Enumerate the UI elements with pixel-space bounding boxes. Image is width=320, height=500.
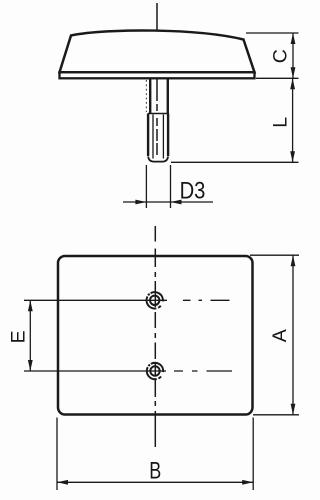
arrow B left [57, 480, 68, 485]
hole H1 centerline horizontal [24, 299, 167, 301]
hole H1 thread arc [147, 292, 163, 308]
svg-text:A: A [269, 329, 291, 342]
hole H2 centerline horizontal [24, 370, 166, 372]
dimension line D3 [123, 201, 213, 203]
arrow E bottom [28, 360, 33, 371]
A top extension line [250, 254, 299, 256]
C bottom extension line [256, 77, 299, 79]
arrow L top [290, 78, 295, 89]
arrow C bottom [291, 67, 296, 78]
cap flange band [60, 72, 255, 78]
arrow E top [28, 300, 33, 311]
thread minor diameter [153, 115, 163, 159]
arrow L bottom [290, 151, 295, 162]
dimension line E [29, 300, 31, 371]
plate outline [58, 256, 253, 415]
dimension line C [292, 33, 294, 78]
dimension line B [57, 481, 253, 483]
B left extension line [56, 418, 58, 491]
dimension line L [292, 78, 294, 162]
arrow D3 left [135, 200, 146, 205]
centerline top view [156, 3, 158, 163]
thread runout line [148, 113, 168, 115]
dimension line A [292, 255, 294, 415]
arrow B right [242, 480, 253, 485]
hole H2 inner circle [150, 366, 159, 375]
arrow D3 right [171, 200, 182, 205]
L bottom extension line [171, 161, 299, 163]
D3 left extension line [145, 165, 147, 208]
centerline bottom view [154, 226, 156, 447]
svg-text:L: L [270, 117, 292, 128]
svg-text:B: B [149, 458, 161, 484]
hole H1 inner circle [150, 296, 159, 305]
svg-text:C: C [269, 49, 291, 63]
thread major diameter [148, 114, 168, 157]
cap body [60, 30, 255, 72]
arrow A bottom [291, 404, 296, 415]
arrow C top [291, 33, 296, 44]
hidden major-diameter line [145, 80, 147, 112]
hole H2 thread arc [147, 363, 163, 379]
stud rounded end [148, 157, 168, 162]
D3 right extension line [170, 165, 172, 208]
stud shank [150, 79, 168, 114]
svg-text:D3: D3 [180, 177, 206, 204]
B right extension line [252, 418, 254, 491]
A bottom extension line [253, 414, 299, 416]
arrow A top [291, 255, 296, 266]
svg-text:E: E [7, 330, 29, 343]
C top extension line [246, 32, 299, 34]
